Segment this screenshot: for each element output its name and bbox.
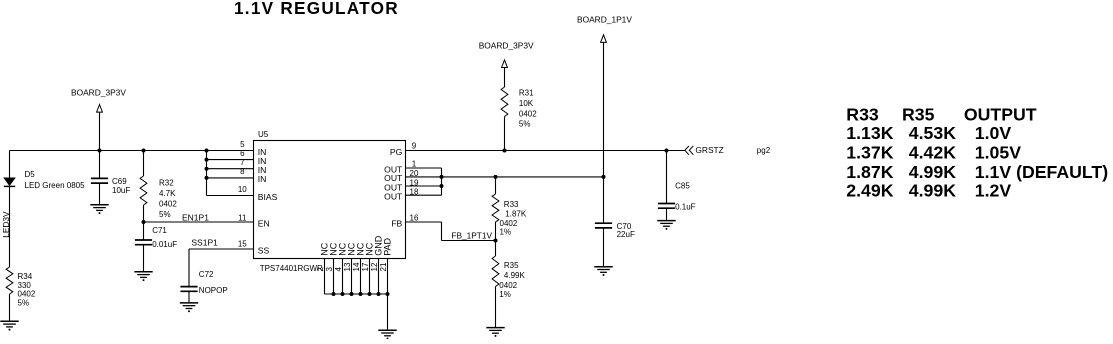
svg-text:10K: 10K [519, 99, 534, 108]
svg-text:R33: R33 [504, 200, 519, 209]
svg-text:IN: IN [258, 174, 267, 184]
svg-text:330: 330 [18, 281, 32, 290]
svg-text:U5: U5 [258, 130, 269, 139]
svg-text:22uF: 22uF [617, 230, 635, 239]
svg-text:4.42K: 4.42K [909, 142, 956, 162]
svg-text:D5: D5 [25, 170, 36, 179]
svg-text:BOARD_3P3V: BOARD_3P3V [479, 41, 534, 51]
svg-text:19: 19 [410, 178, 419, 187]
svg-text:1.87K: 1.87K [505, 210, 527, 219]
svg-text:1.0V: 1.0V [975, 123, 1012, 143]
svg-text:5%: 5% [18, 299, 30, 308]
svg-text:R34: R34 [18, 272, 33, 281]
svg-text:11: 11 [238, 213, 247, 222]
svg-text:4.99K: 4.99K [909, 181, 956, 201]
svg-text:3: 3 [325, 267, 334, 272]
svg-text:1%: 1% [499, 290, 511, 299]
svg-text:1.05V: 1.05V [975, 142, 1021, 162]
svg-text:C72: C72 [199, 270, 214, 279]
svg-text:FB_1PT1V: FB_1PT1V [451, 230, 492, 240]
svg-text:0402: 0402 [499, 281, 517, 290]
svg-text:pg2: pg2 [757, 146, 771, 155]
svg-text:5: 5 [240, 140, 245, 149]
svg-text:GRSTZ: GRSTZ [695, 145, 723, 155]
svg-text:8: 8 [240, 167, 245, 176]
svg-text:BOARD_3P3V: BOARD_3P3V [71, 88, 126, 98]
svg-text:1.1V REGULATOR: 1.1V REGULATOR [234, 0, 399, 18]
svg-text:R32: R32 [159, 178, 174, 187]
svg-text:1.37K: 1.37K [846, 142, 893, 162]
svg-text:0402: 0402 [159, 199, 177, 208]
svg-text:EN: EN [258, 218, 270, 228]
svg-text:PG: PG [390, 147, 403, 157]
svg-text:C69: C69 [112, 177, 127, 186]
svg-text:SS1P1: SS1P1 [191, 237, 218, 247]
svg-text:10: 10 [238, 185, 247, 194]
svg-text:PAD: PAD [383, 237, 393, 255]
svg-text:15: 15 [238, 239, 247, 248]
svg-text:14: 14 [352, 262, 361, 271]
svg-text:9: 9 [412, 142, 417, 151]
svg-text:C85: C85 [675, 181, 690, 190]
svg-text:R31: R31 [519, 89, 534, 98]
svg-text:TPS74401RGWR: TPS74401RGWR [260, 264, 323, 273]
svg-text:1.13K: 1.13K [846, 123, 893, 143]
svg-text:1: 1 [412, 159, 417, 168]
svg-text:R35: R35 [902, 105, 935, 125]
svg-text:5%: 5% [519, 120, 531, 129]
svg-text:R33: R33 [846, 105, 879, 125]
svg-text:LED Green 0805: LED Green 0805 [25, 181, 86, 190]
svg-text:7: 7 [240, 158, 245, 167]
svg-text:12: 12 [370, 262, 379, 271]
svg-text:R35: R35 [504, 261, 519, 270]
svg-text:OUT: OUT [384, 192, 403, 202]
svg-text:FB: FB [391, 218, 402, 228]
svg-text:EN1P1: EN1P1 [182, 212, 209, 222]
svg-text:4.99K: 4.99K [909, 162, 956, 182]
svg-text:4.99K: 4.99K [504, 271, 526, 280]
svg-text:6: 6 [240, 149, 245, 158]
svg-text:LED3V: LED3V [1, 211, 11, 238]
svg-text:20: 20 [410, 169, 419, 178]
svg-text:BIAS: BIAS [258, 192, 278, 202]
svg-text:0402: 0402 [18, 290, 36, 299]
svg-text:16: 16 [410, 214, 419, 223]
svg-text:5%: 5% [159, 210, 171, 219]
svg-text:4: 4 [334, 267, 343, 272]
svg-text:1.1V (DEFAULT): 1.1V (DEFAULT) [975, 162, 1108, 182]
svg-text:1.2V: 1.2V [975, 181, 1012, 201]
svg-text:SS: SS [258, 245, 270, 255]
svg-text:0.1uF: 0.1uF [675, 203, 696, 212]
svg-text:2.49K: 2.49K [846, 181, 893, 201]
svg-text:4.53K: 4.53K [909, 123, 956, 143]
svg-text:BOARD_1P1V: BOARD_1P1V [577, 15, 632, 25]
svg-text:2: 2 [316, 267, 325, 272]
svg-text:18: 18 [410, 187, 419, 196]
svg-text:0402: 0402 [519, 110, 537, 119]
svg-text:21: 21 [379, 262, 388, 271]
svg-text:0.01uF: 0.01uF [152, 240, 177, 249]
svg-text:4.7K: 4.7K [159, 189, 176, 198]
svg-text:17: 17 [361, 262, 370, 271]
svg-text:NOPOP: NOPOP [199, 286, 228, 295]
svg-text:1.87K: 1.87K [846, 162, 893, 182]
svg-text:OUTPUT: OUTPUT [964, 105, 1037, 125]
svg-text:1%: 1% [500, 228, 512, 237]
svg-text:13: 13 [343, 262, 352, 271]
svg-text:10uF: 10uF [112, 186, 130, 195]
svg-text:C71: C71 [152, 226, 167, 235]
